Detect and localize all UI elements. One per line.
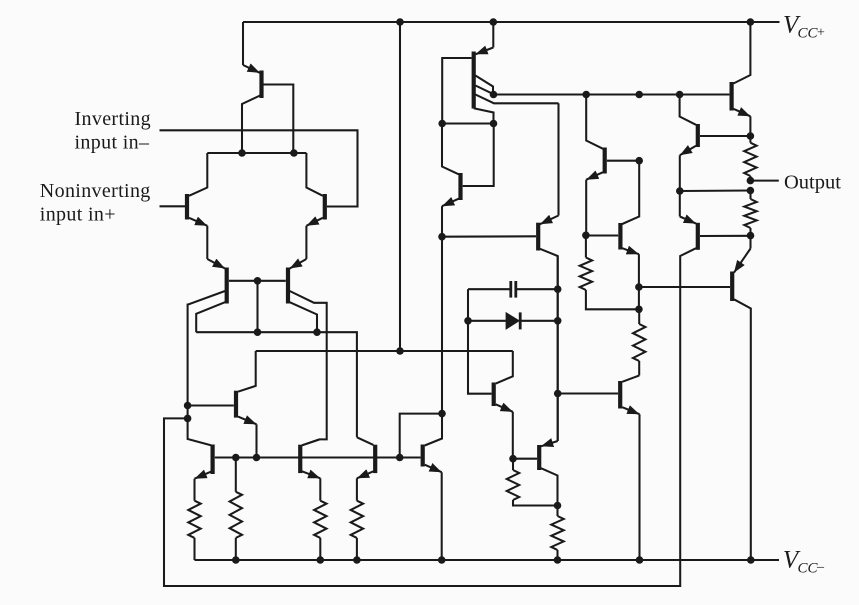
node: VCC- rail / Q22 emitter: [438, 556, 446, 564]
wire: output lead: [750, 180, 778, 182]
svg-text:–: –: [816, 560, 825, 575]
wire: Q10 emitter to Q12 base: [442, 235, 536, 237]
node: collector bus junction at Q16: [676, 91, 684, 99]
svg-text:CC: CC: [798, 26, 819, 42]
node: Q22 collector junction: [438, 410, 446, 418]
transistor Q12 (PNP level shifter): [538, 103, 558, 441]
resistor R10 (output, lower): [744, 191, 756, 229]
wire: VCC+ supply rail: [243, 21, 780, 23]
wire: Q10 emitter column: [441, 237, 443, 414]
node: D1 left junction: [464, 317, 472, 325]
resistor R1 (Q5 emitter): [188, 501, 200, 560]
node: mirror line junction at Q4 collector: [313, 328, 321, 336]
svg-text:+: +: [817, 26, 825, 41]
node: Q11 emitter / R5 junction: [509, 455, 517, 463]
resistor R2 (base rail to VCC-): [230, 458, 242, 561]
resistor R8 (Q18 emitter): [633, 309, 645, 375]
resistor R7 (across Q18 base-emitter): [580, 235, 640, 309]
wire: Q1/Q2 collector tie line: [207, 152, 306, 154]
transistor Q6 (NPN mirror): [300, 439, 320, 500]
node: Q12 collector / Q19 base junction: [554, 390, 562, 398]
svg-text:CC: CC: [798, 561, 819, 577]
node: Q10 emitter junction: [438, 233, 446, 241]
node: junction below output tap: [747, 187, 755, 195]
resistor R3 (Q6 emitter): [314, 501, 326, 560]
label VCC+: [783, 12, 825, 42]
node: D1 right junction: [554, 317, 562, 325]
transistor Q2 (NPN input, inverting): [306, 153, 324, 259]
resistor R5 (Q11 emitter): [507, 459, 558, 506]
resistor R9 (output, upper): [744, 136, 756, 176]
node: Q5 collector / Q7 base junction: [184, 402, 192, 410]
node: R5 / Q13 collector junction: [554, 502, 562, 510]
wire: cap/diode left riser to Q11 base: [468, 321, 492, 394]
node: base rail / bias riser junction: [396, 454, 404, 462]
node: base rail / R2 junction: [232, 454, 240, 462]
wire: noninverting input lead: [160, 205, 186, 207]
node: VCC- rail / R4: [353, 556, 361, 564]
node: collector bus junction at Q15: [582, 91, 590, 99]
resistor R4 (Q21 emitter): [351, 501, 363, 560]
transistor Q10 (NPN, diode-connected with Q9): [442, 124, 494, 237]
node: output tap: [747, 177, 755, 185]
svg-text:Noninverting: Noninverting: [40, 180, 151, 202]
node: Q14 emitter / Q16 base junction: [747, 132, 755, 140]
node: Q20 emitter junction: [747, 232, 755, 240]
wire: Q12 collector column: [557, 256, 559, 441]
label Inverting input in-: [75, 108, 151, 153]
node: Q3/Q4 base junction: [254, 277, 262, 285]
wire: VCC+ bias riser: [399, 22, 401, 351]
node: Q18 emitter / R7 junction: [635, 306, 643, 314]
wire: resistor to Q20 emitter node: [749, 228, 751, 236]
node: base rail / Q7 emitter junction: [253, 454, 261, 462]
label Output: [784, 172, 841, 194]
capacitor C1 (compensation): [468, 281, 558, 298]
transistor Q13 (PNP): [513, 441, 558, 516]
transistor Q17 (PNP): [164, 191, 751, 586]
transistor Q11 (NPN): [494, 351, 513, 459]
transistor Q15 (NPN): [586, 95, 639, 236]
node: collector bus junction at Q14 base: [635, 91, 643, 99]
resistor R6 (Q13 collector to VCC-): [551, 516, 563, 560]
wire: collector cross line of input stage: [196, 332, 357, 437]
svg-text:Output: Output: [784, 172, 841, 194]
wire: VCC- supply rail: [195, 559, 780, 561]
diode D1: [468, 289, 558, 330]
svg-text:input in+: input in+: [40, 204, 116, 226]
transistor Q8 (PNP, emitter to VCC+): [242, 65, 293, 153]
wire: Q9 collector bus: [494, 93, 730, 95]
node: C1 right junction: [554, 285, 562, 293]
node: Q9 collector junction: [490, 120, 498, 128]
node: Q16 emitter junction: [676, 187, 684, 195]
transistor Q4 (PNP common-base): [288, 259, 327, 445]
svg-text:input in–: input in–: [75, 131, 150, 153]
wire: VCC+ rail down to Q8 emitter: [242, 22, 244, 65]
node: VCC- rail / R6: [554, 556, 562, 564]
node: VCC- rail / R2: [232, 556, 240, 564]
node: collector bus junction at Q9: [490, 91, 498, 99]
transistor Q16 (NPN driver): [680, 95, 751, 192]
node: Q5 collector line / feedback junction: [184, 415, 192, 423]
transistor Q21 (NPN current source): [357, 437, 375, 500]
node: Q8 collector junction: [238, 149, 246, 157]
node: Q18 emitter / Q20 base junction: [635, 283, 643, 291]
wire: Q7 collector line to VCC+ riser: [256, 350, 513, 352]
node: bias riser junction: [396, 347, 404, 355]
wire: base junction down to mirror line: [256, 281, 258, 332]
transistor Q9 (multi-collector lateral PNP): [442, 48, 558, 124]
transistor Q14 (NPN output, top): [732, 22, 751, 136]
node: VCC- rail / Q20 collector: [747, 556, 755, 564]
label Noninverting input in+: [40, 180, 151, 226]
transistor Q1 (NPN input, noninverting): [187, 153, 207, 259]
label VCC-: [783, 547, 825, 577]
node: Q9 base junction: [438, 120, 446, 128]
wire: Q16 emitter tie to output node: [680, 189, 751, 192]
transistor Q20 (PNP output): [639, 236, 751, 560]
transistor Q18 (NPN bias): [586, 161, 639, 310]
svg-text:Inverting: Inverting: [75, 108, 151, 130]
transistor Q5 (NPN mirror): [195, 445, 213, 501]
transistor Q19 (NPN bias, lower): [558, 376, 640, 561]
transistor Q22 (NPN current source): [423, 414, 442, 560]
transistor Q7 (NPN helper): [189, 351, 257, 458]
node: Q15 base junction: [635, 157, 643, 165]
wire: Q9 base-collector tie: [442, 122, 493, 124]
node: VCC+ rail junction to Q14 collector: [747, 18, 755, 26]
transistor Q3 (PNP common-base): [188, 259, 227, 445]
node: Q15 emitter / Q18 base junction: [582, 232, 590, 240]
node: Q8 base junction: [290, 149, 298, 157]
node: VCC- rail / Q19 emitter: [636, 556, 644, 564]
node: VCC+ rail junction to Q9 emitter: [490, 18, 498, 26]
node: VCC- rail / R3: [317, 556, 325, 564]
wire: mirror base rail: [215, 456, 421, 458]
wire: VCC+ rail down to Q9 emitter diagonal: [492, 22, 494, 48]
wire: inverting input lead and riser to Q2 base: [160, 130, 358, 206]
wire: Q3/Q4 base tie: [229, 280, 286, 282]
wire: resistor to output tap: [749, 176, 751, 181]
node: mirror line junction at base riser: [254, 328, 262, 336]
node: VCC+ rail junction to bias line: [396, 18, 404, 26]
wire: bias link from Q22 collector to base rail: [400, 414, 442, 458]
